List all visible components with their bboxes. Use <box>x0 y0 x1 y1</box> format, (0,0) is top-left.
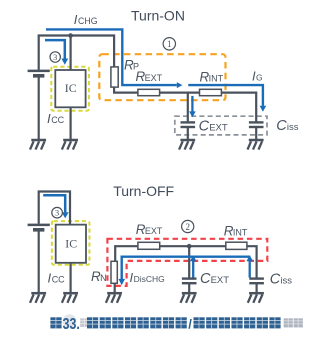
yellow dashed IC box (lower) <box>52 221 90 265</box>
svg-text:33.: 33. <box>63 316 80 333</box>
ground (battery top) <box>30 140 46 150</box>
wire: Ciss bottom to ground (top) <box>255 128 257 140</box>
caption figure char (tu) <box>50 317 61 328</box>
blue ICHG current path <box>46 29 177 85</box>
caption CJK run 2 <box>194 317 281 328</box>
capacitor CEXT (top) <box>181 122 196 127</box>
circled 3 (lower) <box>52 207 63 218</box>
svg-text:N: N <box>100 273 107 283</box>
resistor RINT (top) <box>200 89 222 95</box>
resistor RN <box>111 261 117 283</box>
svg-text:CC: CC <box>51 115 64 125</box>
resistor REXT (lower) <box>138 242 160 249</box>
blue IDisCHG discharge path <box>122 257 251 280</box>
wire: IC bottom to ground (lower) <box>69 263 71 293</box>
svg-text:INT: INT <box>209 73 224 83</box>
svg-text:EXT: EXT <box>209 122 228 133</box>
watermark disc behind 33 <box>63 314 77 328</box>
svg-text:IC: IC <box>65 236 77 250</box>
resistor REXT (top) <box>138 89 160 95</box>
wire: RN top, rail to Ciss (lower) <box>115 246 256 278</box>
resistor RP <box>111 67 118 87</box>
wire: branch to Cext (lower) <box>188 246 190 278</box>
wire: branch to Cext (top) <box>187 93 189 122</box>
blue up arrow from Ciss (lower) <box>249 261 251 278</box>
svg-text:Turn-OFF: Turn-OFF <box>113 183 174 199</box>
blue current arrow 3 into IC (lower) <box>43 195 65 212</box>
wire: IC bottom to ground <box>69 107 71 140</box>
ground (battery lower) <box>30 293 46 303</box>
ground (IC lower) <box>62 293 78 303</box>
svg-text:EXT: EXT <box>145 226 163 236</box>
ground (RN) <box>106 293 122 303</box>
battery V2 <box>28 225 50 230</box>
svg-text:EXT: EXT <box>145 73 163 83</box>
capacitor CISS (top) <box>249 122 264 127</box>
wire: Cext bottom to ground (lower) <box>188 284 190 293</box>
circled 2 <box>182 220 194 232</box>
svg-text:1: 1 <box>167 39 172 49</box>
svg-text:/: / <box>188 317 192 332</box>
yellow dashed IC box (top) <box>51 67 89 111</box>
svg-text:G: G <box>256 73 263 83</box>
svg-text:C: C <box>276 118 287 134</box>
ground (Ciss lower) <box>248 293 264 303</box>
orange dashed box (turn-on gate loop) <box>99 54 225 100</box>
ground (IC top) <box>62 140 78 150</box>
wire: battery V2 bottom to ground <box>38 231 40 293</box>
resistor RINT (lower) <box>226 242 247 249</box>
IC block U1 (top) <box>55 70 85 107</box>
svg-text:C: C <box>270 271 281 287</box>
ground (Cext top) <box>179 140 195 150</box>
gray dashed capacitor box (top) <box>175 116 267 135</box>
watermark char (light) <box>80 318 89 327</box>
wire: battery V1 top to RP (top rail) <box>39 36 114 70</box>
svg-text:C: C <box>199 118 210 134</box>
capacitor CEXT (lower) <box>182 279 197 284</box>
svg-text:INT: INT <box>233 228 248 238</box>
IC block U2 (lower) <box>56 225 86 263</box>
battery V1 <box>28 71 50 76</box>
svg-text:3: 3 <box>55 209 59 218</box>
wire: battery V2 top rail into IC <box>39 192 70 226</box>
svg-text:CHG: CHG <box>78 16 98 26</box>
blue arrow into Cext (top) <box>191 96 193 112</box>
svg-text:2: 2 <box>185 222 190 232</box>
wire: battery V1 bottom to ground <box>38 77 40 140</box>
wire: junction to IC top <box>69 36 71 71</box>
ground (Ciss top) <box>248 140 264 150</box>
svg-text:iss: iss <box>287 122 299 133</box>
circled 3 (top) <box>50 52 60 62</box>
svg-text:iss: iss <box>280 275 292 286</box>
svg-text:IC: IC <box>65 81 77 95</box>
svg-text:Turn-ON: Turn-ON <box>131 8 185 24</box>
blue up arrow from Cext (lower) <box>192 261 194 278</box>
wire: Cext bottom to ground (top) <box>187 128 189 140</box>
wire: RN bottom to ground <box>114 283 116 293</box>
node junction dot (top rail) <box>68 33 73 38</box>
svg-text:EXT: EXT <box>211 275 230 286</box>
capacitor CISS (lower) <box>249 279 264 284</box>
blue current arrow 3 into IC (top) <box>45 40 65 59</box>
node junction dot (lower rail) <box>187 244 192 249</box>
watermark chars (ying yong) <box>284 318 303 327</box>
blue IG current path <box>188 85 263 106</box>
red dashed box (turn-off loop) <box>107 239 267 286</box>
svg-text:DisCHG: DisCHG <box>134 274 165 284</box>
caption CJK run 1 <box>87 317 187 328</box>
ground (Cext lower) <box>181 293 197 303</box>
svg-text:3: 3 <box>53 53 57 62</box>
svg-text:C: C <box>200 271 211 287</box>
circled 1 <box>163 38 175 50</box>
wire: Ciss bottom to ground (lower) <box>256 284 258 293</box>
wire: RP bottom, main rail to Ciss (top) <box>114 87 256 122</box>
svg-text:CC: CC <box>52 275 65 285</box>
